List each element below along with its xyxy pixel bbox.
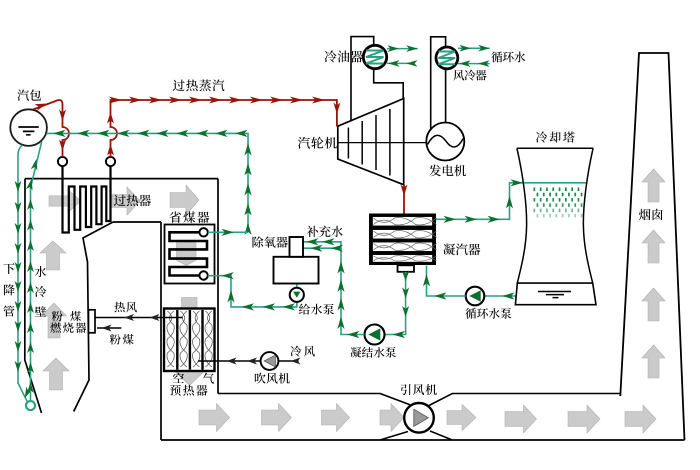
- cooling tower basin to circulating pump to condenser: [485, 295, 517, 297]
- oil cooler circle: [363, 45, 386, 68]
- downcomer 下降管 green line: [18, 145, 27, 402]
- drum water level lines: [18, 127, 38, 135]
- economizer inlet header circle: [199, 271, 207, 279]
- label 给水泵: [299, 304, 334, 315]
- label 循环水泵: [465, 308, 511, 319]
- label 空 气: [173, 373, 214, 384]
- air preheater braid pattern: [167, 311, 174, 367]
- flue gas down arrow inside economizer: [172, 243, 202, 266]
- steam turbine 汽轮机 trapezoid: [338, 99, 404, 185]
- hot air 热风 line: [96, 317, 183, 319]
- label 水冷壁 (vertical): [35, 266, 46, 317]
- bottom duct bottom edge: [161, 439, 685, 441]
- label 省煤器: [170, 211, 210, 223]
- water wall riser 水冷壁 green line: [31, 142, 42, 401]
- steam drum 汽包 circle: [10, 109, 47, 146]
- label 粉煤燃烧器 two lines: [50, 311, 86, 333]
- feed pump 给水泵 circle: [290, 288, 304, 302]
- blower 吹风机 circle: [261, 352, 279, 370]
- generator 发电机 circle with sine: [426, 123, 464, 161]
- economizer outlet header circle: [199, 228, 207, 236]
- flue gas arrow in top duct (above economizer): [170, 185, 199, 215]
- air cooler 风冷器 piping loop: [431, 37, 446, 129]
- economizer outlet to riser: [208, 231, 248, 233]
- boiler top edge: [25, 178, 218, 180]
- flue gas arrow in top duct (behind superheater): [49, 190, 81, 213]
- air preheater column separators: [176, 310, 178, 370]
- economizer serpentine coil: [170, 232, 208, 275]
- air preheater box 空气预热器: [164, 309, 215, 372]
- label 补充水: [307, 226, 343, 237]
- spray droplets: [534, 188, 536, 192]
- valve circle on superheater outlet: [110, 166, 112, 179]
- label 过热蒸汽: [173, 80, 225, 92]
- flue gas up arrows in chimney: [642, 169, 665, 202]
- flue gas up arrow in furnace middle (behind burner label): [42, 303, 67, 338]
- superheated steam 过热蒸汽 arrows to turbine: [109, 97, 122, 104]
- label 引风机: [401, 384, 437, 395]
- label 吹风机: [255, 373, 290, 384]
- red downpipe to superheater inlet valve (hops green line): [33, 100, 69, 157]
- cooling tower basin: [515, 283, 596, 305]
- bottom duct top edge left of fan: [218, 394, 410, 405]
- bottom duct top edge right of fan: [429, 394, 621, 406]
- red riser from superheater outlet valve (hops green line): [111, 100, 337, 157]
- flue gas arrows in bottom duct: [199, 404, 230, 432]
- label 烟囱: [639, 209, 663, 221]
- circulating water: condenser to cooling tower: [436, 183, 586, 220]
- condenser tube braid pattern: [374, 218, 437, 225]
- condensate pump 凝结水泵 circle: [365, 325, 385, 345]
- label 冷油器: [325, 50, 363, 62]
- air cooler circle: [436, 47, 458, 69]
- label 冷却塔: [536, 131, 575, 142]
- label 汽轮机: [298, 137, 337, 149]
- label 发电机: [429, 165, 465, 177]
- flue gas up arrow in furnace upper: [40, 241, 66, 270]
- label 下降管 (vertical): [3, 263, 14, 317]
- label 凝结水泵: [350, 347, 395, 358]
- boiler left wall and ash hopper slant: [25, 179, 42, 413]
- condensate from hotwell down: [385, 272, 406, 335]
- economizer box 省煤器: [165, 225, 215, 284]
- condensate pump to deaerator riser: [303, 242, 365, 335]
- label 汽包: [17, 89, 41, 100]
- air cooler cooling water lines 循环水: [458, 47, 490, 49]
- burner 粉煤燃烧器 box: [89, 310, 96, 333]
- oil cooler cooling water lines: [387, 48, 418, 50]
- deaerator 除氧器: [274, 257, 319, 284]
- cold air 冷风 line through blower: [198, 360, 261, 362]
- chimney outline: [620, 53, 684, 440]
- label 除氧器: [252, 236, 287, 247]
- cooling tower 冷却塔 shell: [517, 147, 593, 149]
- label 预热器: [170, 385, 207, 396]
- label 循环水: [491, 51, 525, 62]
- label 过热器: [114, 195, 151, 207]
- backpass left wall down to bottom duct: [160, 222, 162, 440]
- flue gas arrowhead below air preheater: [175, 372, 204, 386]
- furnace nose top line to backpass: [113, 221, 161, 223]
- feedwater main line into drum (economizer to drum): [46, 133, 248, 232]
- label 粉煤: [110, 334, 134, 345]
- venturi bottom edges around fan: [380, 432, 408, 441]
- valve circle on superheater inlet: [62, 166, 64, 186]
- red line drum to superheater inlet: [35, 104, 48, 111]
- oil cooler 冷油器 piping loop: [351, 37, 374, 122]
- condenser hotwell outlet box: [398, 265, 415, 272]
- flue gas arrow in top duct (behind 过热器 label): [112, 187, 140, 215]
- boiler right wall (backpass outer): [217, 179, 219, 394]
- label 冷风: [290, 346, 314, 357]
- label 风冷器: [453, 70, 486, 81]
- flue gas stem between economizer and air preheater: [182, 298, 198, 309]
- deaerator outlet stem to feed pump: [296, 284, 298, 289]
- flue gas arrows in duct at chimney base: [568, 405, 600, 433]
- induced draft fan 引风机 circle: [404, 403, 434, 433]
- turbine internal hatch lines: [347, 128, 349, 159]
- red turbine exhaust into condenser: [403, 185, 405, 214]
- turbine-generator shaft: [338, 142, 427, 144]
- label 热风: [114, 302, 137, 313]
- label 凝汽器: [443, 244, 480, 256]
- pulverized coal 粉煤 line: [97, 327, 121, 329]
- furnace nose and furnace right wall with hopper: [74, 222, 113, 412]
- feed pump to economizer inlet: [208, 276, 297, 307]
- flue gas arrow after induced draft fan: [447, 405, 476, 431]
- lower header circle: [26, 401, 35, 410]
- flue gas up arrow in furnace lower: [43, 358, 69, 390]
- circulating pump 循环水泵 circle: [466, 287, 485, 306]
- condenser box 凝汽器: [369, 214, 436, 266]
- superheater serpentine coil 过热器: [63, 166, 111, 233]
- makeup water 补充水 line: [303, 247, 342, 249]
